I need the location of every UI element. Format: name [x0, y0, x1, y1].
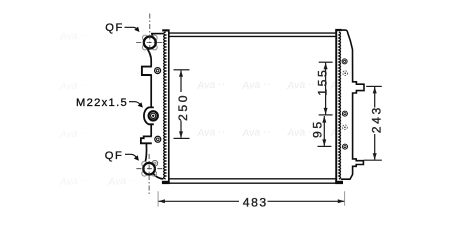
svg-text:Ava ··: Ava ·· — [241, 126, 271, 140]
svg-text:Ava ··: Ava ·· — [241, 78, 271, 92]
svg-text:Ava ··: Ava ·· — [58, 29, 88, 43]
svg-text:Ava ··: Ava ·· — [58, 127, 88, 141]
svg-text:QF: QF — [105, 150, 124, 162]
svg-text:250: 250 — [176, 93, 190, 121]
svg-text:Ava ··: Ava ·· — [196, 78, 226, 92]
svg-text:Ava ··: Ava ·· — [58, 174, 88, 188]
svg-text:243: 243 — [370, 105, 384, 133]
svg-text:95: 95 — [310, 119, 324, 138]
svg-text:155: 155 — [316, 68, 330, 96]
svg-text:Ava ··: Ava ·· — [58, 79, 88, 93]
svg-text:483: 483 — [243, 196, 268, 210]
svg-text:M22x1.5: M22x1.5 — [76, 97, 128, 109]
svg-text:Ava ··: Ava ·· — [196, 126, 226, 140]
svg-text:Ava ··: Ava ·· — [286, 78, 316, 92]
svg-text:QF: QF — [105, 22, 124, 34]
svg-text:Ava ··: Ava ·· — [107, 174, 137, 188]
